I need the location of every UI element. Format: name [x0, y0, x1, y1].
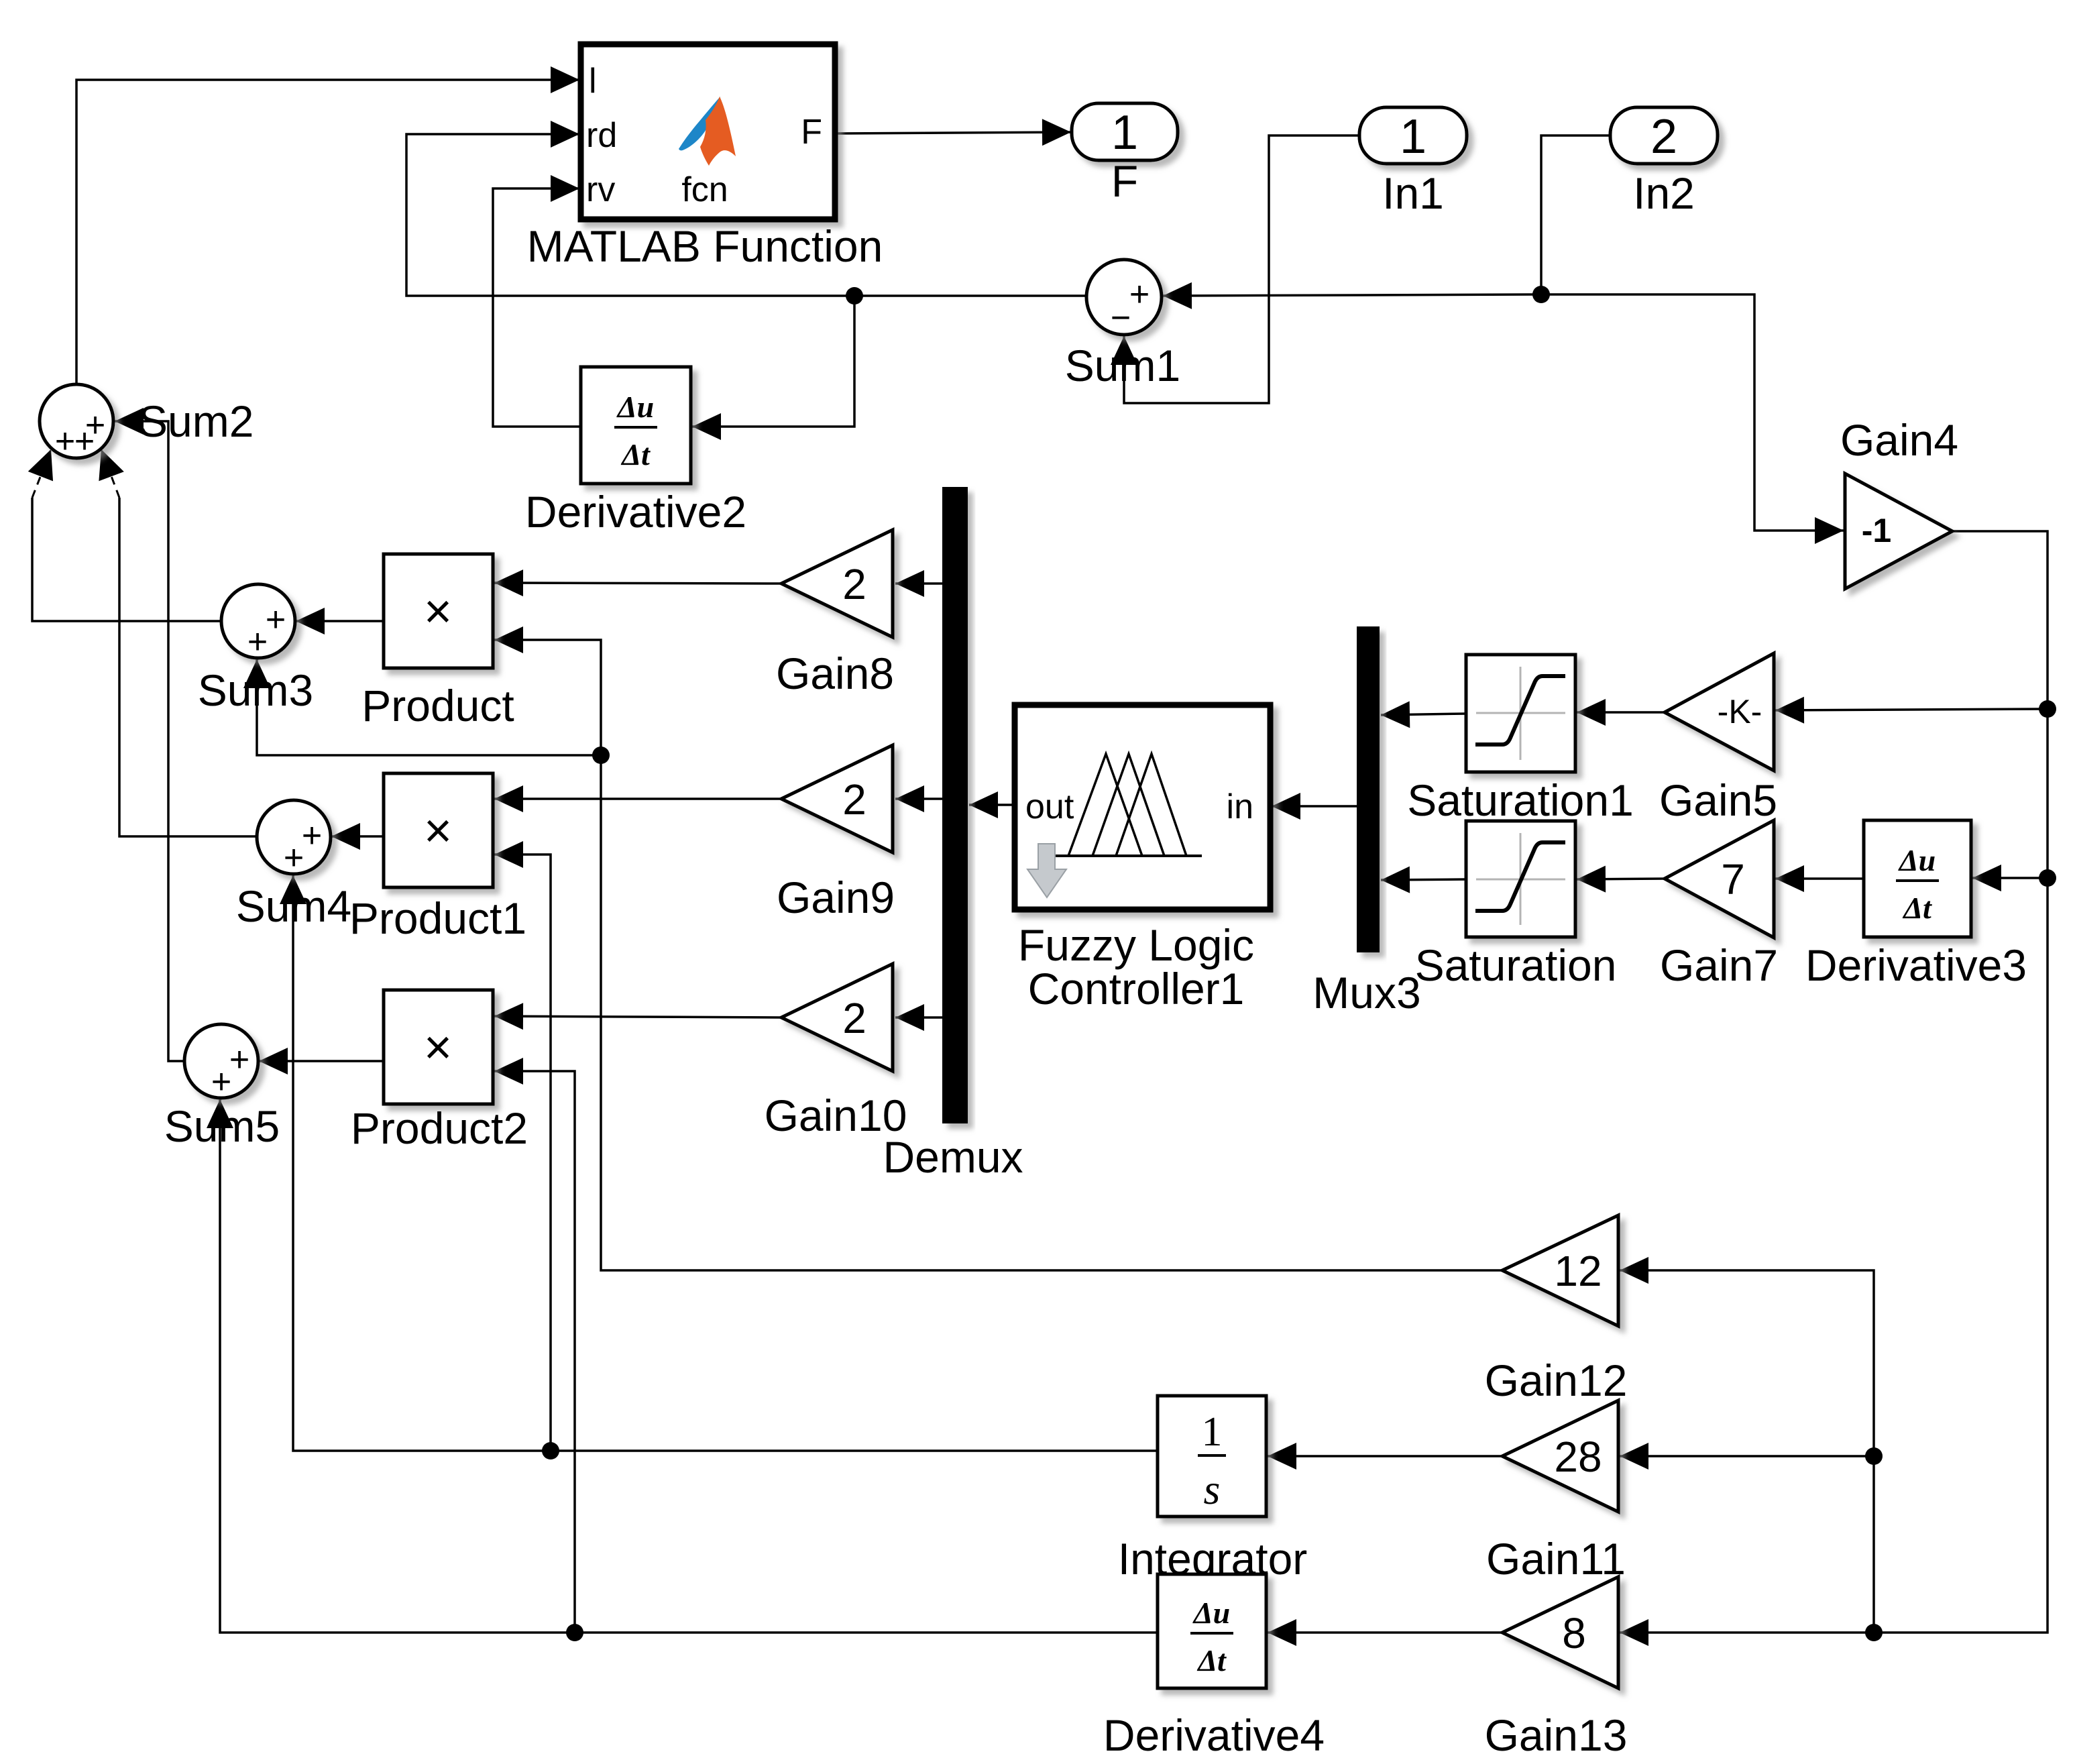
wire Demux output 1 to Gain8 input: [895, 582, 942, 585]
junction dot Derivative4 line Product2 branch: [566, 1624, 583, 1641]
wire diagonal dashed into Sum2 bottom right: [101, 449, 119, 498]
svg-text:+: +: [74, 422, 95, 461]
outport F: [1072, 103, 1178, 160]
wire Sum5 output to Sum2 right input: [115, 421, 184, 1061]
svg-text:Sum3: Sum3: [198, 665, 313, 715]
wire branch junction down to Derivative2 input: [692, 296, 854, 427]
svg-text:Gain4: Gain4: [1840, 415, 1958, 465]
inport In2: [1610, 107, 1718, 164]
gain Gain5: [1665, 653, 1774, 771]
wire rail to Derivative3 input: [1972, 877, 2048, 879]
wire rail to Gain5 input: [1775, 709, 2048, 710]
svg-text:2: 2: [842, 775, 866, 824]
svg-text:-1: -1: [1862, 512, 1891, 549]
gain Gain11: [1502, 1400, 1618, 1512]
svg-text:Product1: Product1: [349, 893, 526, 943]
svg-text:In2: In2: [1633, 168, 1695, 218]
integrator Integrator: [1158, 1396, 1266, 1517]
mux Mux3: [1357, 626, 1380, 952]
wire Product output to Sum3 right input: [296, 620, 384, 622]
svg-text:F: F: [801, 113, 822, 152]
svg-text:2: 2: [842, 560, 866, 608]
svg-text:Mux3: Mux3: [1312, 968, 1420, 1017]
wire Gain13 output to Derivative4 input: [1268, 1631, 1502, 1634]
gain Gain8: [781, 530, 893, 637]
wire MATLAB Function output F to outport F: [835, 132, 1071, 133]
wire branch to Gain11 input: [1620, 1455, 1874, 1457]
wire rail branch up to Gain12 input: [1620, 1270, 1874, 1633]
svg-text:Demux: Demux: [883, 1132, 1023, 1182]
gain Gain13: [1502, 1577, 1618, 1688]
wire Saturation1 output to Mux3 top input: [1381, 714, 1466, 715]
membership triangle 1: [1068, 754, 1142, 856]
product Product2: [384, 990, 493, 1104]
sum Sum2: [40, 384, 113, 461]
svg-text:Sum4: Sum4: [236, 881, 351, 931]
svg-text:out: out: [1025, 787, 1074, 826]
derivative Derivative4: [1158, 1574, 1266, 1688]
svg-text:Product: Product: [361, 681, 514, 730]
svg-text:1: 1: [1111, 106, 1138, 160]
junction dot Integrator line Product1 branch: [542, 1442, 559, 1459]
wire Sum1 output to junction to MATLAB Function input rd: [406, 134, 1086, 296]
svg-text:Δt: Δt: [620, 437, 651, 472]
wire Fuzzy Logic Controller1 output out to Demux input: [969, 804, 1015, 806]
junction dot Gain12 line Sum3 branch: [592, 747, 610, 764]
wire Derivative4 output to Sum5 bottom input: [220, 1099, 1158, 1633]
wire Saturation output to Mux3 bottom input: [1381, 879, 1466, 880]
svg-text:×: ×: [424, 804, 452, 858]
svg-text:Δu: Δu: [1898, 843, 1936, 877]
svg-text:F: F: [1111, 156, 1138, 206]
svg-text:s: s: [1204, 1466, 1221, 1513]
junction dot In2 branch: [1532, 286, 1550, 303]
svg-text:2: 2: [842, 994, 866, 1042]
saturation Saturation: [1466, 821, 1575, 937]
svg-text:×: ×: [424, 585, 452, 639]
demux Demux: [942, 487, 968, 1123]
svg-text:+: +: [1129, 275, 1150, 314]
svg-text:Gain12: Gain12: [1485, 1356, 1628, 1405]
product Product1: [384, 773, 493, 887]
svg-text:Δt: Δt: [1902, 891, 1932, 925]
svg-text:+: +: [284, 838, 304, 877]
junction dot rail Derivative3: [2039, 869, 2056, 887]
derivative Derivative2: [581, 367, 691, 484]
wire In2 down to junction: [1541, 135, 1610, 294]
svg-text:fcn: fcn: [681, 170, 728, 209]
MATLAB logo orange peak: [700, 97, 736, 166]
svg-text:Gain9: Gain9: [777, 873, 895, 922]
sum Sum1: [1086, 260, 1162, 337]
svg-text:Derivative4: Derivative4: [1103, 1710, 1325, 1760]
junction dot rail branch bottom: [1865, 1624, 1883, 1641]
svg-text:+: +: [302, 816, 322, 855]
membership triangle 3: [1116, 754, 1186, 856]
derivative Derivative3: [1864, 820, 1971, 937]
svg-text:7: 7: [1721, 855, 1745, 903]
wire Product1 output to Sum4 right input: [331, 835, 384, 838]
svg-text:+: +: [55, 422, 75, 461]
junction dot rd/Derivative2 branch: [846, 287, 863, 305]
svg-text:MATLAB Function: MATLAB Function: [527, 221, 883, 271]
wire junction to Sum1 right input: [1163, 294, 1541, 296]
svg-text:rv: rv: [586, 170, 615, 209]
gain Gain4: [1845, 474, 1952, 589]
svg-text:+: +: [266, 600, 286, 639]
wire branch to Product2 input 2: [494, 1071, 575, 1633]
gain Gain10: [781, 964, 893, 1071]
sum Sum5: [184, 1024, 258, 1101]
wire Derivative2 output to MATLAB Function input rv: [493, 188, 581, 427]
inport In1: [1359, 107, 1467, 164]
wire junction to Gain4 input: [1541, 294, 1844, 531]
gain Gain12: [1502, 1215, 1618, 1326]
gain Gain7: [1665, 820, 1774, 938]
wire branch to Product1 input 2: [494, 855, 551, 1451]
wire Demux output 3 to Gain10 input: [895, 1016, 942, 1019]
block MATLAB Function: [581, 44, 835, 219]
fuzzy logic controller Fuzzy Logic Controller1: [1015, 705, 1270, 909]
svg-text:+: +: [247, 622, 268, 661]
sum Sum4: [257, 800, 331, 877]
svg-text:rd: rd: [586, 116, 617, 155]
svg-text:Fuzzy Logic: Fuzzy Logic: [1018, 920, 1254, 970]
svg-text:1: 1: [1400, 110, 1426, 164]
wire Derivative3 output to Gain7 input: [1775, 877, 1864, 880]
wire Gain12 output up to Product input 2: [494, 640, 1502, 1270]
wire Product2 output to Sum5 right input: [259, 1060, 384, 1062]
junction dot Gain11 branch: [1865, 1447, 1883, 1465]
wire Integrator output to Sum4 bottom input: [293, 875, 1158, 1451]
wire Gain9 output to Product1 input 1: [494, 797, 781, 800]
svg-text:Derivative2: Derivative2: [525, 487, 746, 537]
svg-text:-K-: -K-: [1718, 693, 1762, 730]
svg-text:×: ×: [424, 1021, 452, 1074]
saturation Saturation1: [1466, 655, 1575, 772]
svg-text:Derivative3: Derivative3: [1805, 940, 2027, 990]
product Product: [384, 554, 493, 668]
wire Sum3 output to Sum2 bottom left input: [32, 498, 221, 621]
svg-text:In1: In1: [1382, 168, 1444, 218]
svg-text:Gain13: Gain13: [1485, 1710, 1628, 1760]
svg-text:28: 28: [1554, 1433, 1602, 1481]
svg-text:Product2: Product2: [351, 1103, 528, 1153]
svg-text:+: +: [229, 1040, 249, 1079]
svg-text:Sum2: Sum2: [138, 396, 254, 446]
wire Gain4 output down right rail to Gain13 input: [1620, 531, 2048, 1633]
membership functions baseline: [1055, 855, 1202, 857]
svg-text:12: 12: [1554, 1247, 1602, 1295]
svg-text:Δt: Δt: [1196, 1643, 1227, 1677]
svg-text:Gain7: Gain7: [1660, 940, 1778, 990]
svg-text:1: 1: [1202, 1409, 1223, 1455]
svg-text:Saturation1: Saturation1: [1407, 775, 1634, 825]
wire Gain10 output to Product2 input 1: [494, 1016, 781, 1017]
svg-text:Δu: Δu: [1192, 1596, 1230, 1630]
wire Gain11 output to Integrator input: [1268, 1455, 1502, 1457]
svg-text:Gain11: Gain11: [1486, 1534, 1626, 1584]
svg-text:Controller1: Controller1: [1028, 964, 1245, 1013]
svg-text:Gain8: Gain8: [776, 649, 894, 698]
svg-text:Sum1: Sum1: [1065, 341, 1180, 390]
svg-text:+: +: [211, 1062, 231, 1101]
wire Gain5 output to Saturation1 input: [1577, 711, 1665, 714]
wire In1 to Sum1 bottom input: [1124, 135, 1359, 403]
svg-text:−: −: [1111, 298, 1131, 337]
gain Gain9: [781, 745, 893, 852]
svg-text:2: 2: [1650, 110, 1677, 164]
wire Gain7 output to Saturation input: [1577, 879, 1665, 879]
sum Sum3: [221, 584, 295, 661]
svg-text:Δu: Δu: [616, 390, 654, 424]
svg-text:l: l: [589, 62, 597, 101]
svg-text:Saturation: Saturation: [1415, 940, 1617, 990]
wire Mux3 output to Fuzzy Logic Controller1 input in: [1272, 805, 1357, 808]
wire branch to Sum3 bottom input: [257, 659, 601, 755]
junction dot rail Gain5: [2039, 700, 2056, 718]
svg-text:in: in: [1227, 787, 1253, 826]
svg-text:Sum5: Sum5: [164, 1101, 280, 1151]
wire Sum4 output to Sum2 bottom right input: [119, 498, 257, 836]
wire Gain8 output to Product input 1: [494, 583, 781, 584]
wire Sum2 output to MATLAB Function input l: [76, 80, 579, 384]
wire diagonal dashed into Sum2 bottom left: [32, 449, 51, 498]
wire Demux output 2 to Gain9 input: [895, 797, 942, 800]
MATLAB logo blue wing: [679, 97, 720, 150]
gray download arrow: [1027, 844, 1066, 897]
svg-text:8: 8: [1562, 1609, 1586, 1657]
membership triangle 2: [1092, 754, 1164, 856]
svg-text:Gain5: Gain5: [1659, 775, 1777, 825]
